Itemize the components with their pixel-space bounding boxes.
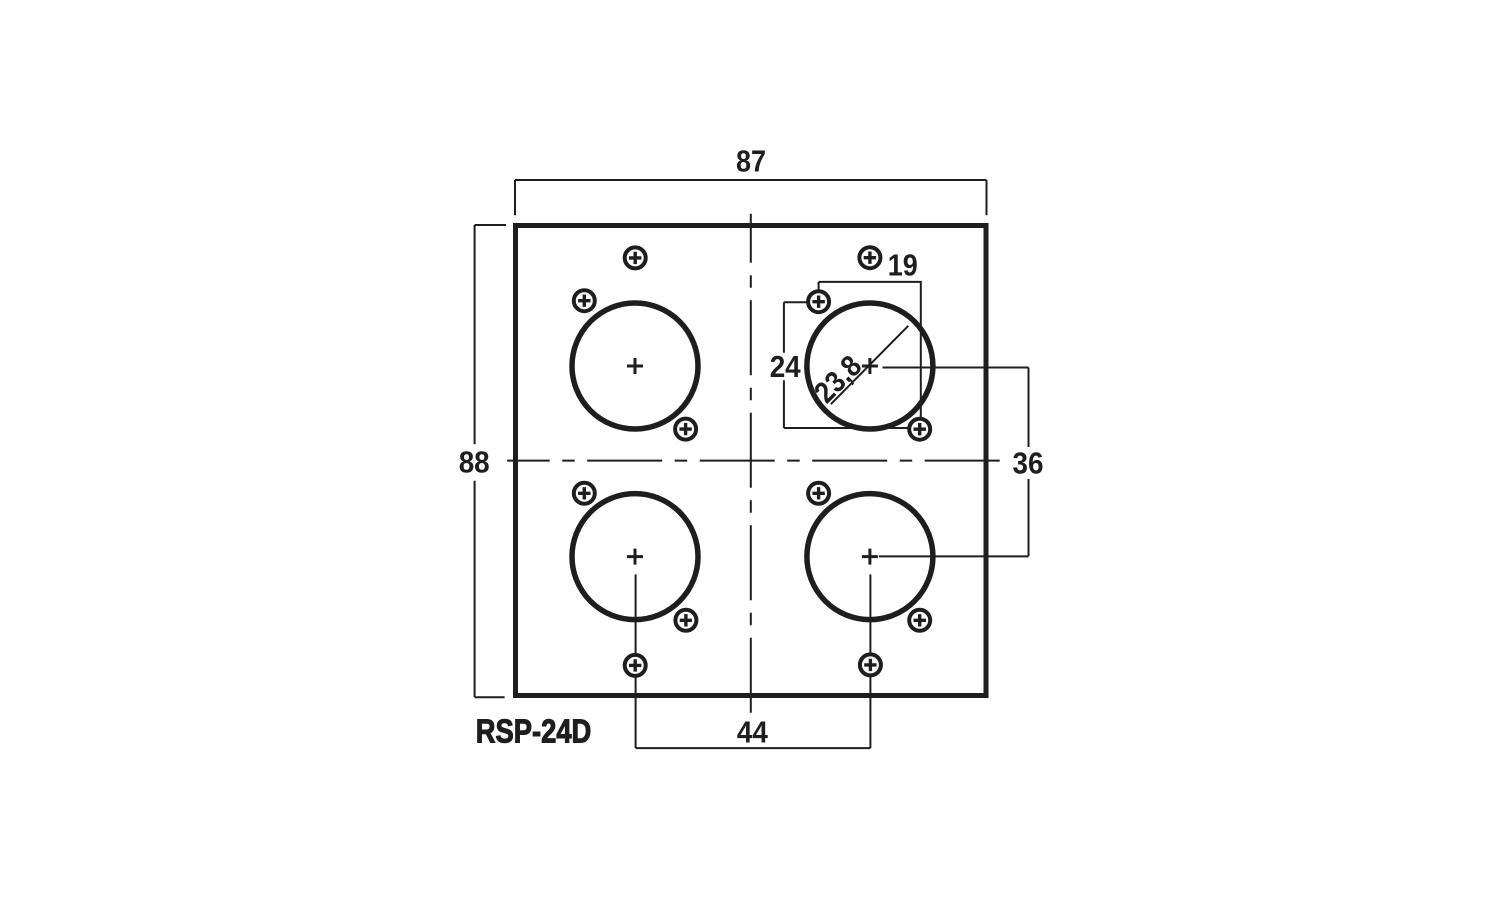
center cross hole D2 bbox=[862, 358, 878, 374]
center cross hole D1 bbox=[627, 358, 643, 374]
hole D2 top-right circle bbox=[807, 303, 933, 429]
svg-text:87: 87 bbox=[736, 144, 766, 179]
screw hole D4 upper-left bbox=[808, 483, 829, 504]
screw hole D3 lower-right bbox=[675, 610, 696, 631]
screw hole D1 lower-right bbox=[675, 419, 696, 440]
svg-text:19: 19 bbox=[888, 247, 918, 282]
dimension 24 bracket bbox=[784, 302, 909, 428]
panel screw top-left bbox=[625, 247, 646, 268]
vertical centerline bbox=[750, 214, 752, 713]
panel screw bottom-left bbox=[625, 655, 646, 676]
svg-text:24: 24 bbox=[770, 349, 802, 384]
svg-text:44: 44 bbox=[737, 714, 769, 749]
dimension 87 line bbox=[515, 180, 987, 215]
center cross hole D4 bbox=[862, 549, 878, 565]
svg-text:36: 36 bbox=[1013, 446, 1044, 481]
dimension 36 lines bbox=[879, 368, 1029, 557]
hole D3 bottom-left circle bbox=[572, 494, 698, 620]
screw hole D2 upper-left bbox=[808, 291, 829, 312]
svg-text:RSP-24D: RSP-24D bbox=[476, 714, 592, 751]
horizontal centerline bbox=[507, 460, 1001, 462]
dimension 19 bracket bbox=[819, 282, 922, 419]
panel outline (87 x 88 plate) bbox=[516, 226, 987, 696]
screw hole D2 lower-right bbox=[909, 419, 930, 440]
dimension 23,8 diagonal diameter line bbox=[831, 326, 909, 404]
svg-text:88: 88 bbox=[459, 444, 490, 479]
panel screw top-right bbox=[859, 247, 880, 268]
center cross hole D3 bbox=[627, 549, 643, 565]
screw hole D1 upper-left bbox=[574, 290, 595, 311]
hole D1 top-left circle bbox=[572, 303, 698, 429]
screw hole D4 lower-right bbox=[909, 610, 930, 631]
hole D4 bottom-right circle bbox=[807, 494, 933, 620]
screw hole D3 upper-left bbox=[574, 483, 595, 504]
dimension 44 lines bbox=[636, 574, 871, 748]
dimension 88 line bbox=[475, 225, 506, 697]
panel screw bottom-right bbox=[860, 654, 881, 675]
